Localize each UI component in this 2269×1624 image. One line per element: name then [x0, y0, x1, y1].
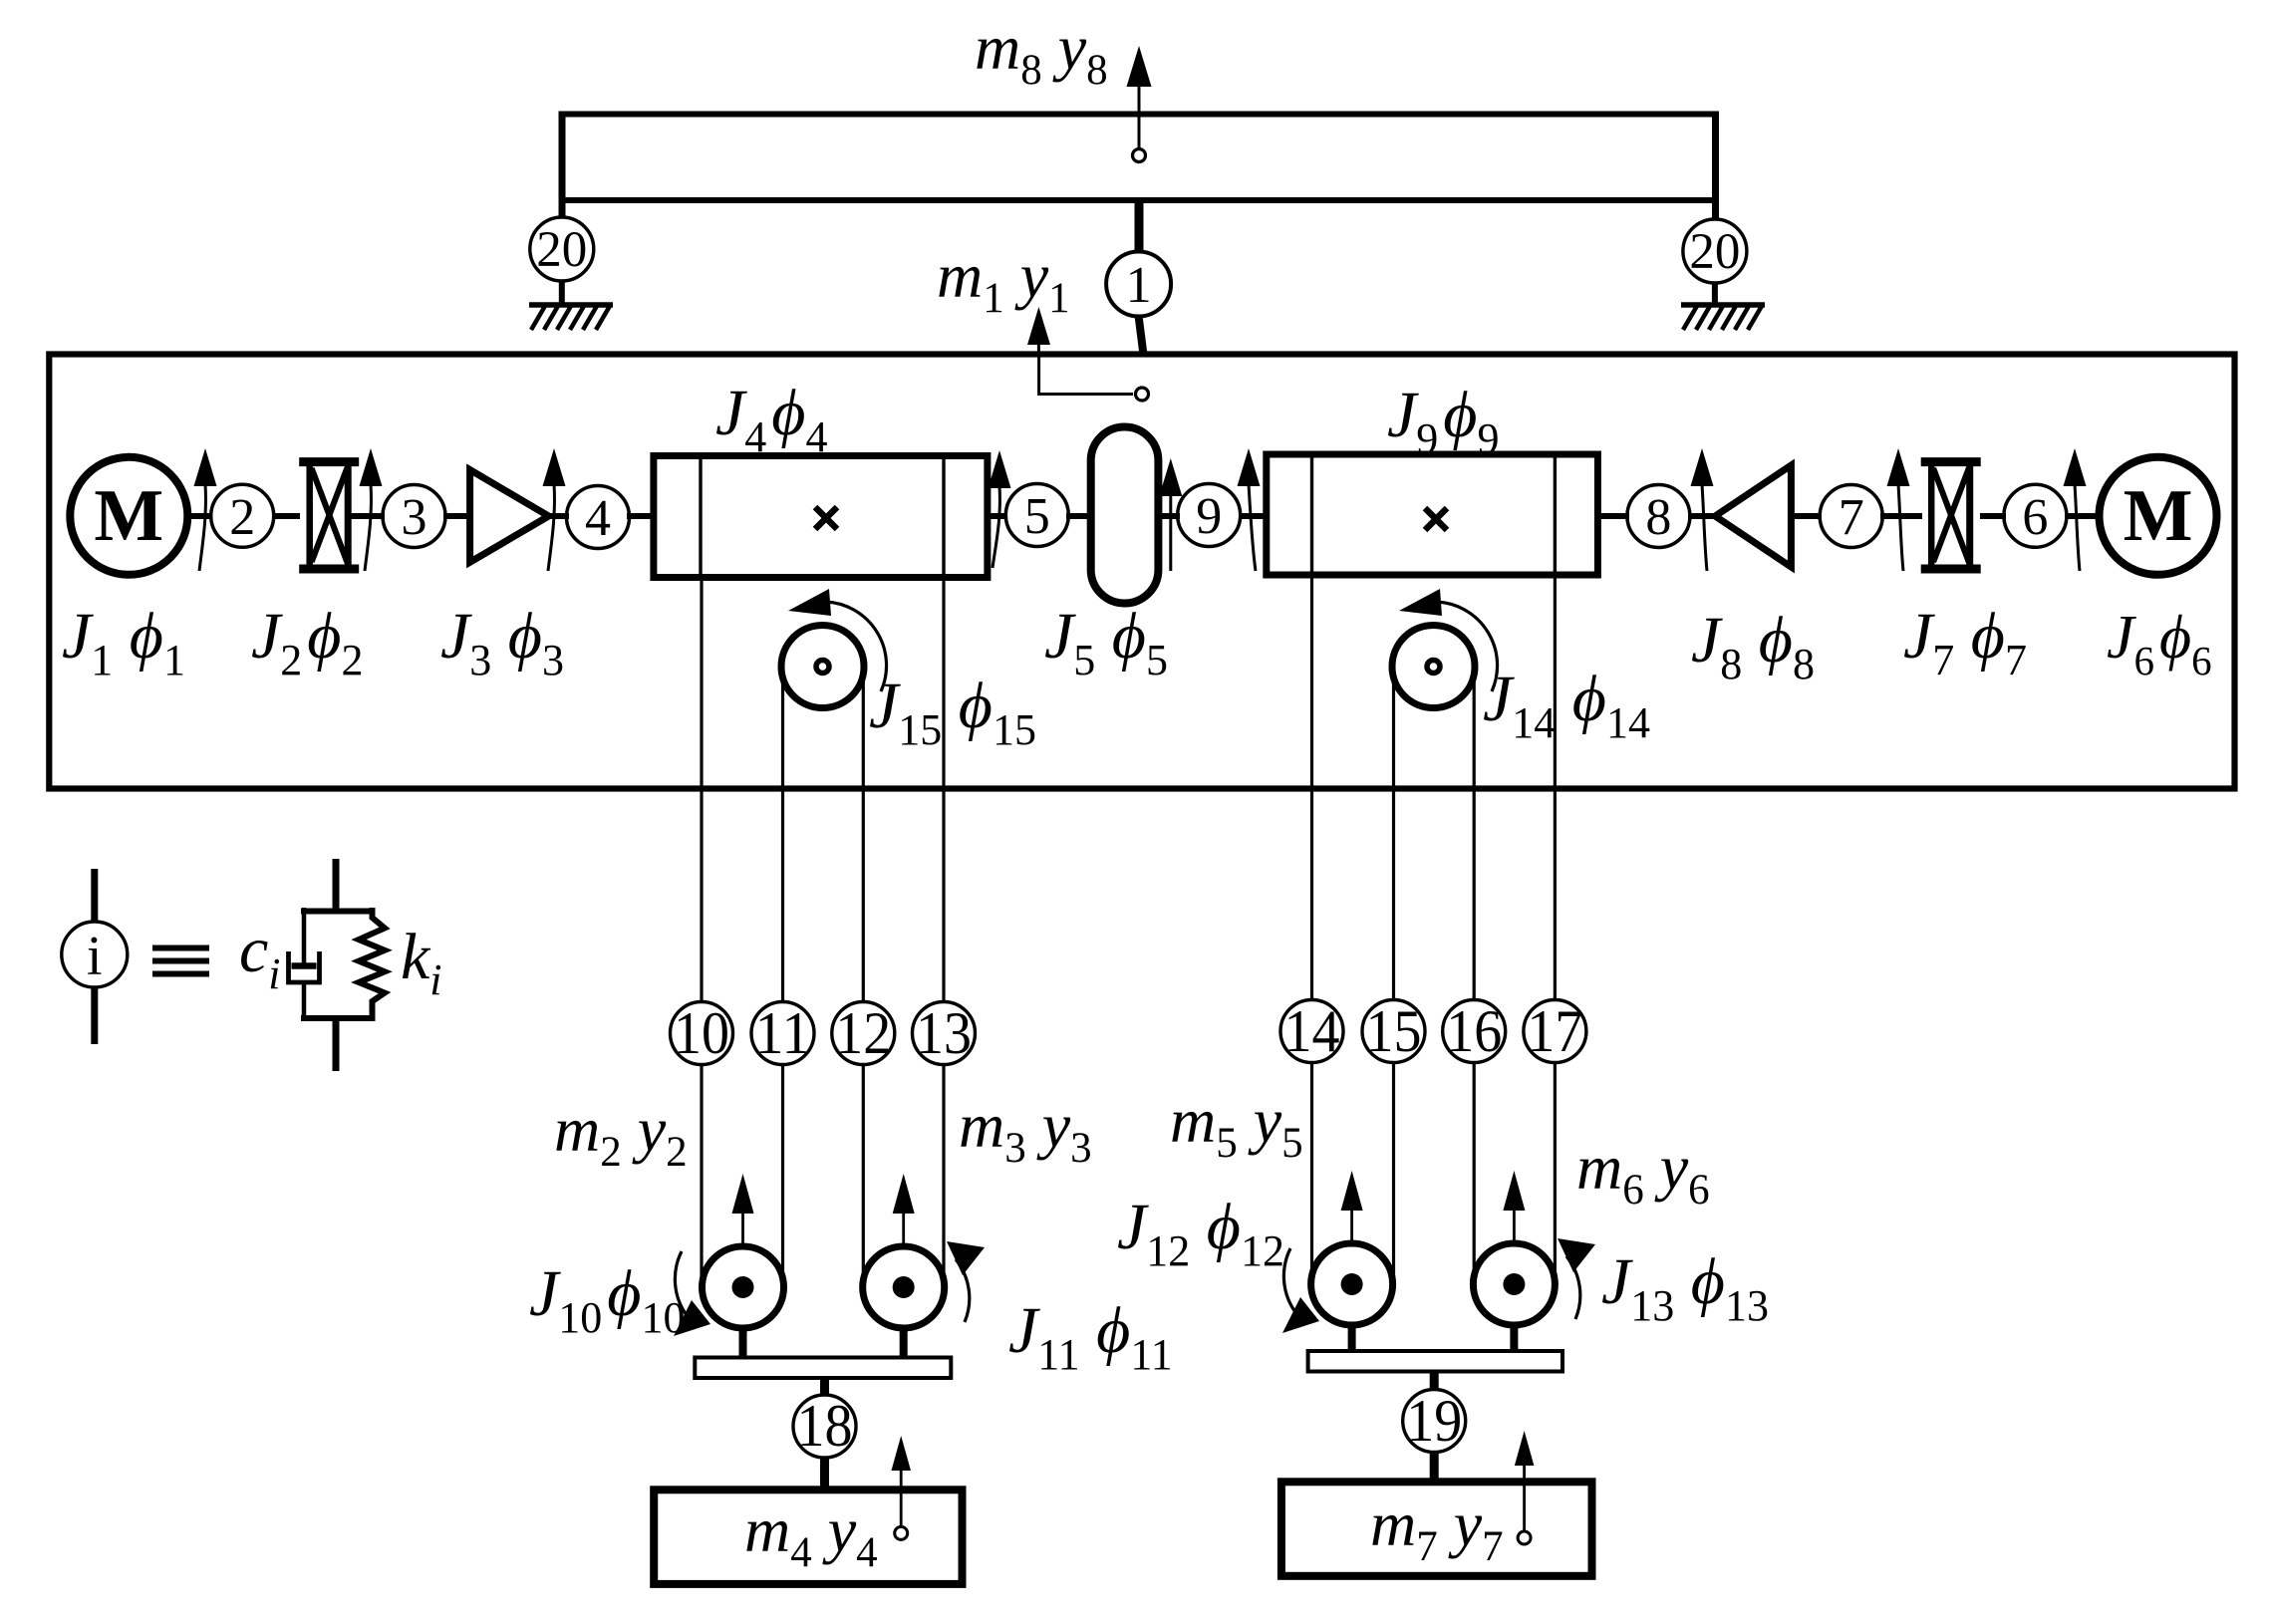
rotation arrow phi11 — [947, 1241, 985, 1322]
svg-text:i: i — [87, 926, 103, 987]
svg-text:17: 17 — [1527, 998, 1582, 1064]
wire bar to element 19 — [1430, 1372, 1439, 1391]
pulley J10 — [703, 1246, 784, 1359]
gear J3 (triangle) — [470, 470, 549, 563]
arrow y5 (above pulley J12) — [1341, 1171, 1363, 1284]
svg-text:9: 9 — [1196, 488, 1222, 545]
wire element 18 to mass m4 — [820, 1458, 829, 1490]
wire element 19 to mass m7 — [1430, 1453, 1439, 1484]
svg-text:19: 19 — [1406, 1388, 1462, 1454]
spring-damper element 2 — [211, 484, 274, 547]
motor M left (inertia J1) — [70, 457, 187, 575]
wire bar to element 18 — [820, 1378, 829, 1396]
arrow y4 — [892, 1436, 912, 1539]
spring-damper element 12 — [832, 1000, 895, 1066]
mass m7 — [1281, 1482, 1592, 1576]
svg-text:8: 8 — [1645, 489, 1671, 546]
rotation arrow phi3 — [543, 448, 566, 571]
legend: element i symbol — [62, 869, 128, 1044]
arrow y6 (above pulley J13) — [1503, 1171, 1525, 1284]
rotation arrow phi14 — [1399, 589, 1498, 691]
spring-damper element 6 — [2004, 484, 2067, 547]
svg-text:M: M — [2124, 475, 2193, 557]
svg-text:7: 7 — [1839, 489, 1864, 546]
arrow y2 (above pulley J10) — [732, 1174, 754, 1287]
rope from drum J4 left to element 10 — [700, 578, 703, 1002]
arrow y7 — [1515, 1431, 1535, 1544]
crosshead bar left — [695, 1358, 951, 1379]
ropes below elements 10-13 — [702, 1065, 944, 1288]
spring-damper element 9 — [1178, 484, 1241, 547]
rotation arrow phi1 — [194, 448, 217, 571]
svg-text:4: 4 — [585, 490, 611, 547]
wire beam to element 1 — [1135, 200, 1144, 253]
svg-text:3: 3 — [402, 489, 427, 546]
spring-damper element 16 — [1443, 998, 1506, 1064]
spring-damper element 5 — [1005, 484, 1068, 547]
drum J9 — [1267, 454, 1598, 575]
legend: equivalence sign — [152, 948, 209, 974]
flexible element J5 (capsule) — [1091, 427, 1159, 604]
rotation arrow phi10 — [674, 1251, 710, 1336]
arrow y3 (above pulley J11) — [893, 1174, 915, 1287]
coupling J2 — [299, 462, 359, 569]
svg-text:20: 20 — [1689, 224, 1740, 280]
rotation arrow phi8 — [1691, 448, 1714, 571]
spring-damper element 18 — [793, 1393, 856, 1459]
svg-text:15: 15 — [1366, 998, 1422, 1064]
svg-text:12: 12 — [835, 1000, 891, 1066]
rope from pulley J15 left to element 11 — [781, 667, 784, 1002]
rotation arrow phi4 (right of drum J4) — [989, 450, 1011, 568]
spring-damper element 20 (left) — [530, 217, 594, 305]
spring-damper element 15 — [1362, 998, 1425, 1064]
spring-damper element 13 — [913, 1000, 976, 1066]
rotation arrow phi5 (straight, right of capsule) — [1159, 458, 1182, 571]
svg-text:18: 18 — [797, 1393, 853, 1459]
rope from drum J4 right to element 13 — [942, 578, 945, 1002]
spring-damper element 10 — [671, 1000, 733, 1066]
spring-damper element 1 — [1106, 252, 1171, 317]
arrow y8 (displacement of beam mass m8) — [1127, 46, 1152, 162]
rope from drum J9 right to element 17 — [1554, 575, 1557, 1000]
svg-text:1: 1 — [1126, 257, 1152, 314]
svg-text:11: 11 — [755, 1000, 811, 1066]
arrow y1 (displacement of frame mass m1) — [1027, 307, 1050, 355]
svg-text:16: 16 — [1446, 998, 1502, 1064]
pulley J15 — [781, 626, 864, 708]
svg-text:6: 6 — [2022, 489, 2048, 546]
spring-damper element 20 (right) — [1683, 219, 1747, 305]
rotation arrow phi9 (left of drum J9) — [1238, 448, 1261, 571]
node marker for m1 (L-line with small circle) — [1039, 356, 1149, 401]
svg-text:M: M — [94, 475, 163, 557]
svg-text:13: 13 — [916, 1000, 972, 1066]
ground (left support) — [529, 305, 613, 330]
pulley J11 — [863, 1246, 945, 1359]
wire element 1 to frame — [1139, 317, 1144, 356]
frame (machine room, mass m1) — [49, 355, 2234, 789]
rotation arrow phi7 — [1887, 448, 1910, 571]
spring-damper element 4 — [567, 486, 630, 549]
pulley J13 — [1473, 1243, 1555, 1353]
rotation arrow phi12 — [1282, 1248, 1319, 1333]
spring-damper element 11 — [751, 1000, 814, 1066]
ropes below elements 14-17 — [1312, 1063, 1556, 1285]
svg-text:10: 10 — [674, 1000, 729, 1066]
rope from pulley J15 right to element 12 — [862, 667, 865, 1002]
spring-damper element 7 — [1820, 485, 1882, 548]
spring-damper element 19 — [1403, 1388, 1466, 1454]
spring-damper element 3 — [383, 485, 445, 548]
svg-text:2: 2 — [229, 489, 255, 546]
svg-text:14: 14 — [1284, 998, 1340, 1064]
legend: damper c_i and spring k_i in parallel — [289, 859, 386, 1071]
spring-damper element 17 — [1524, 998, 1586, 1064]
shaft (main drive line) — [187, 513, 2101, 519]
rope from pulley J14 left to element 15 — [1392, 667, 1395, 1000]
drum J4 — [654, 456, 988, 578]
gear J8 (triangle) — [1715, 465, 1791, 567]
ground (right support) — [1681, 305, 1765, 330]
spring-damper element 14 — [1280, 998, 1343, 1064]
motor M right (inertia J6) — [2100, 457, 2217, 575]
rotation arrow phi15 — [788, 589, 887, 691]
svg-text:20: 20 — [536, 222, 587, 278]
beam (mass m8) — [559, 112, 1720, 221]
rotation arrow phi13 — [1558, 1238, 1595, 1319]
mass m4 — [654, 1489, 962, 1584]
rotation arrow phi6 — [2064, 448, 2087, 571]
pulley J12 — [1311, 1243, 1393, 1353]
rope from pulley J14 right to element 16 — [1473, 667, 1476, 1000]
rotation arrow phi2 — [360, 448, 383, 571]
crosshead bar right — [1308, 1351, 1562, 1372]
spring-damper element 8 — [1627, 485, 1690, 548]
rope from drum J9 left to element 14 — [1310, 575, 1313, 1000]
pulley J14 — [1392, 626, 1475, 708]
coupling J7 — [1921, 462, 1981, 569]
svg-text:5: 5 — [1024, 488, 1050, 545]
